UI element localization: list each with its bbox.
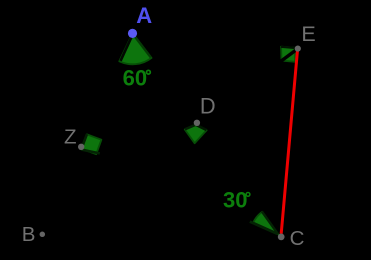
red segment E-C xyxy=(281,49,297,234)
degree symbol of 30 xyxy=(246,193,250,197)
point B dot xyxy=(40,232,46,238)
wire dark segment over Z square bottom edge xyxy=(81,150,100,154)
svg-text:60: 60 xyxy=(123,66,147,91)
angle sector 30deg at C xyxy=(253,212,278,235)
svg-text:D: D xyxy=(200,94,216,119)
svg-text:B: B xyxy=(22,223,36,246)
svg-text:C: C xyxy=(290,227,305,250)
wire dark segment C-D over sector upper edge xyxy=(262,212,278,235)
wire dark segment A-D over sector right edge xyxy=(133,34,151,57)
point C dot xyxy=(278,234,285,241)
point E dot xyxy=(295,46,301,52)
point D dot xyxy=(194,120,200,126)
right angle square at Z xyxy=(82,134,102,154)
wire black segment E-D crossing square xyxy=(280,49,298,63)
degree symbol of 60 xyxy=(147,70,151,74)
svg-text:A: A xyxy=(136,3,152,28)
wire black segment A-B over sector left edge xyxy=(121,34,133,61)
wire dark segment C-Z over sector lower edge xyxy=(250,222,278,235)
wire black segment D-C over square upper right edge xyxy=(196,125,206,130)
wire dark segment D-B over square upper left edge xyxy=(185,125,195,129)
svg-text:E: E xyxy=(301,22,315,46)
svg-text:30: 30 xyxy=(223,188,247,213)
point A dot xyxy=(128,29,137,38)
wire black segment over E square top edge xyxy=(281,47,296,48)
wire dark segment over Z square left edge xyxy=(81,134,87,149)
right angle square at E xyxy=(281,47,295,62)
point Z dot xyxy=(78,144,84,150)
angle sector 60deg at A xyxy=(119,33,151,64)
right angle square at D xyxy=(185,125,207,143)
svg-text:Z: Z xyxy=(64,126,77,149)
